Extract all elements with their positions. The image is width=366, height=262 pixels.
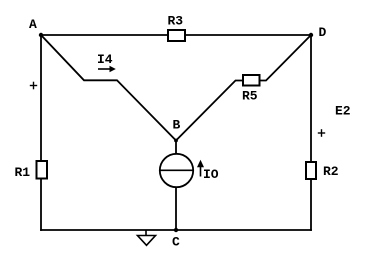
svg-text:R1: R1 (15, 165, 31, 180)
svg-text:A: A (29, 17, 37, 32)
svg-text:R5: R5 (242, 89, 258, 104)
svg-text:R3: R3 (168, 14, 184, 29)
svg-text:IO: IO (203, 167, 219, 182)
svg-text:D: D (319, 25, 327, 40)
svg-text:C: C (172, 235, 180, 250)
svg-text:E2: E2 (335, 104, 351, 119)
svg-text:I4: I4 (97, 52, 113, 67)
svg-text:B: B (173, 118, 181, 133)
svg-text:R2: R2 (323, 164, 339, 179)
